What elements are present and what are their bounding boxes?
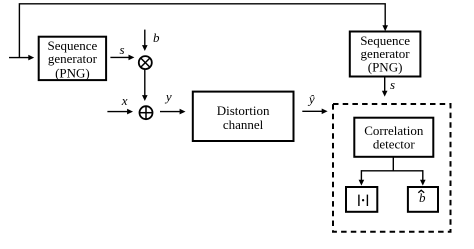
block: right Sequence generator (PNG) bbox=[350, 32, 421, 77]
wire: correlation detector output split to the two result boxes bbox=[359, 157, 426, 186]
wire: multiplier output down to adder bbox=[142, 69, 148, 101]
wire: seed input arrow into left sequence generator bbox=[9, 55, 34, 61]
svg-text:(PNG): (PNG) bbox=[368, 60, 403, 75]
node: adder (circle-plus) bbox=[140, 106, 153, 119]
wire: x input arrow into adder bbox=[107, 109, 133, 115]
wire: y-hat from distortion channel to detector boundary bbox=[302, 109, 327, 115]
svg-text:generator: generator bbox=[48, 51, 98, 66]
block: b-hat estimate output bbox=[408, 187, 438, 212]
boundary: dashed detector box bbox=[333, 104, 451, 232]
svg-text:y: y bbox=[164, 89, 172, 104]
block: magnitude output |.| bbox=[346, 187, 377, 212]
block: Correlation detector bbox=[354, 118, 433, 157]
wire: top feedback line from seed input to right sequence generator bbox=[19, 4, 388, 58]
block: Distortion channel bbox=[193, 92, 294, 141]
svg-text:b: b bbox=[419, 190, 426, 205]
svg-text:x: x bbox=[121, 93, 128, 108]
svg-text:s: s bbox=[119, 42, 124, 57]
svg-text:channel: channel bbox=[223, 117, 264, 132]
svg-text:b: b bbox=[153, 30, 160, 45]
wire: s from right generator down into detector boundary bbox=[382, 77, 388, 97]
wire: s from left generator to multiplier bbox=[110, 55, 134, 61]
svg-text:detector: detector bbox=[373, 137, 416, 152]
block: Sequence generator (PNG) U1 (left) bbox=[39, 37, 106, 81]
svg-text:(PNG): (PNG) bbox=[55, 65, 90, 80]
wire: y from adder to distortion channel bbox=[160, 109, 186, 115]
svg-text:Distortion: Distortion bbox=[217, 103, 270, 118]
svg-text:s: s bbox=[390, 77, 395, 92]
node: multiplier (circle-times) bbox=[139, 56, 152, 69]
svg-text:ŷ: ŷ bbox=[307, 92, 315, 107]
wire: b input arrow into multiplier bbox=[142, 30, 148, 51]
